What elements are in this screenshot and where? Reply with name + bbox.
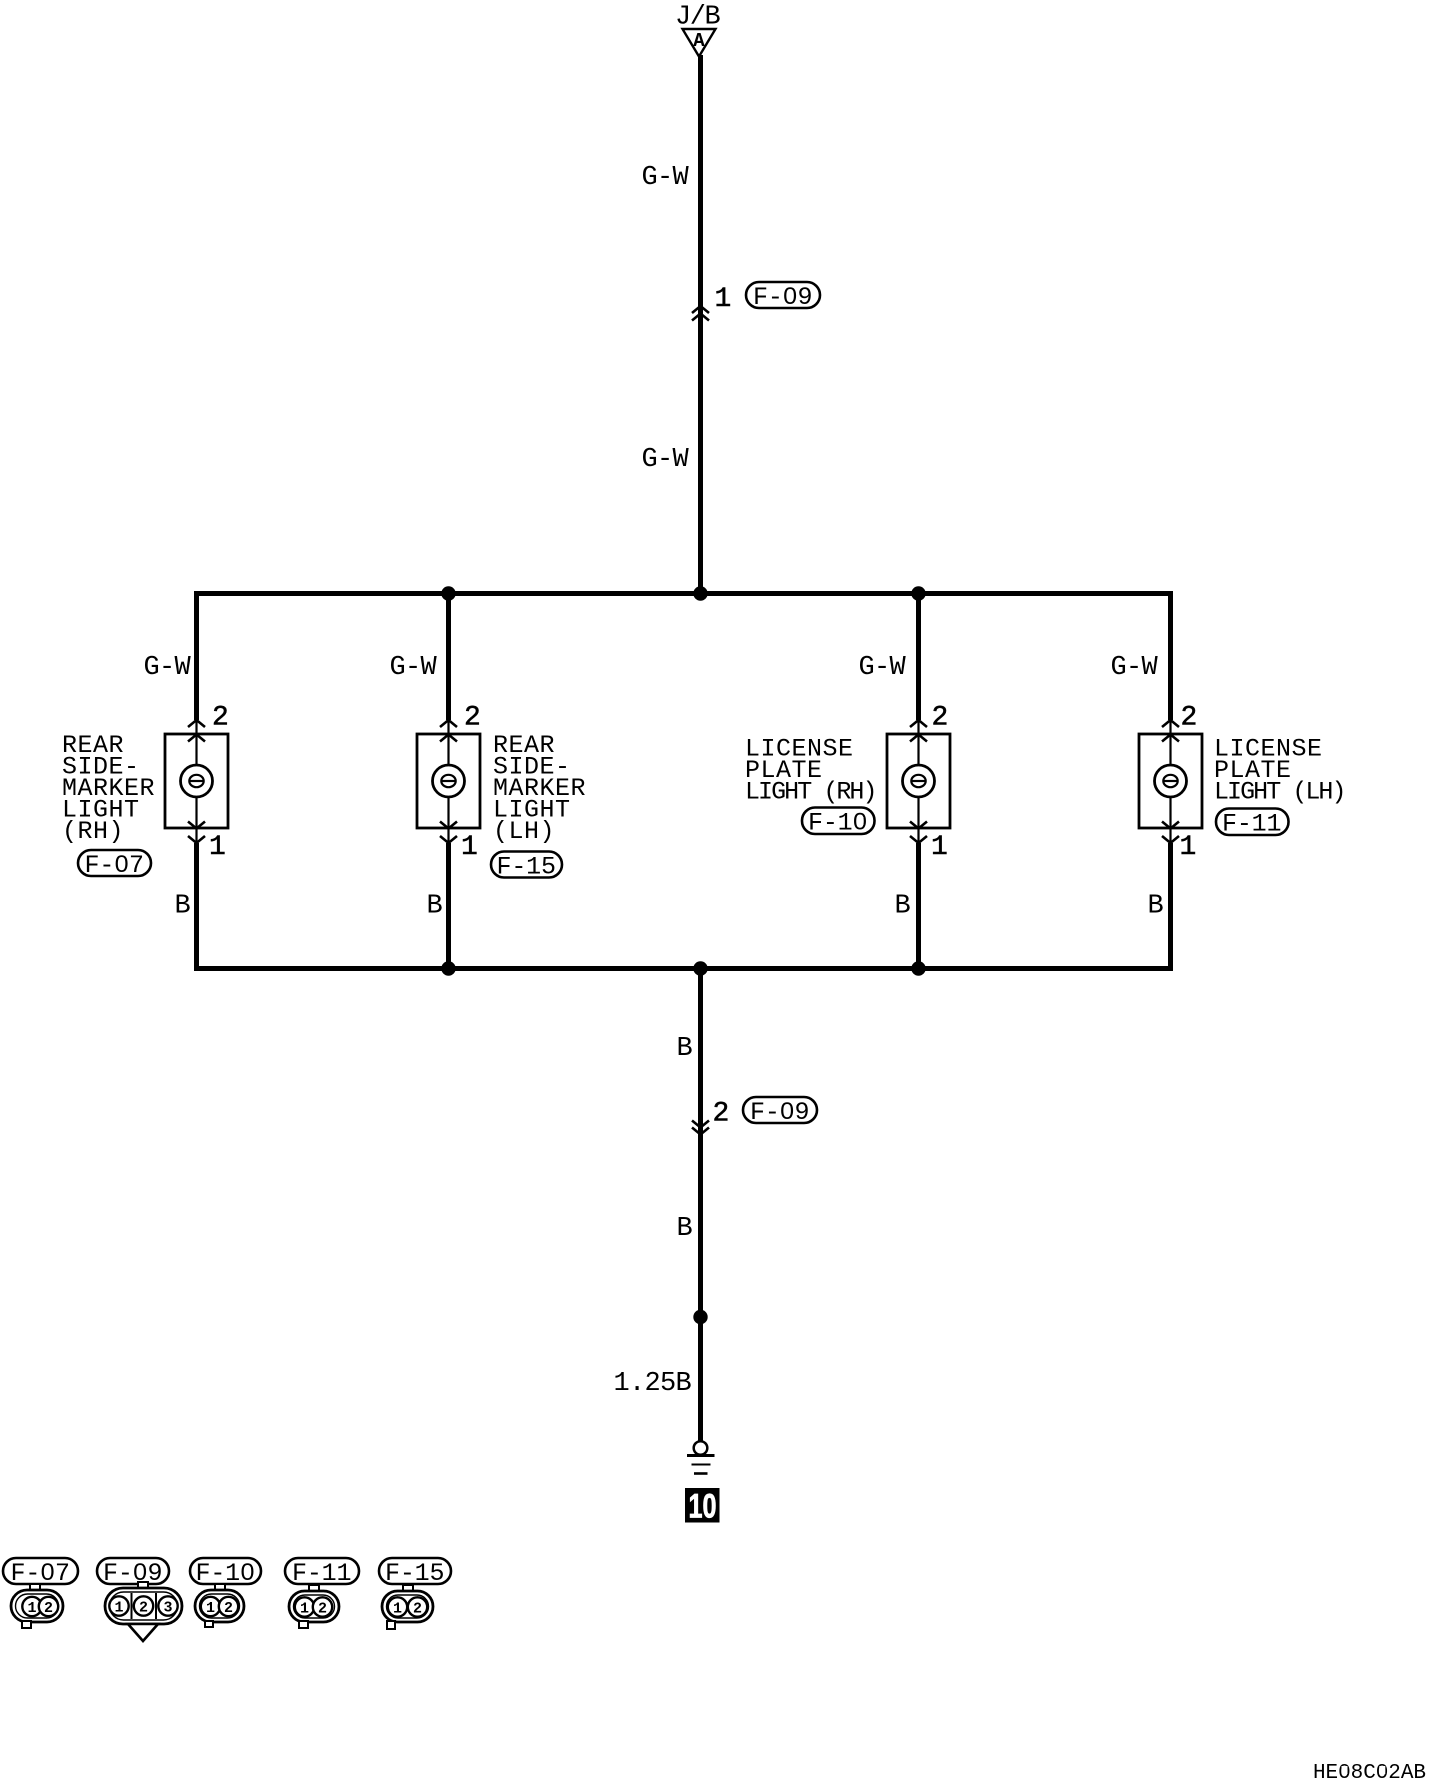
svg-text:(LH): (LH) bbox=[493, 817, 555, 846]
connector arrows at lamp top bbox=[440, 720, 457, 742]
svg-text:LIGHT (RH): LIGHT (RH) bbox=[745, 778, 878, 807]
svg-text:1: 1 bbox=[715, 284, 732, 315]
svg-text:2: 2 bbox=[44, 1600, 53, 1617]
connector label F-07 bbox=[3, 1558, 78, 1588]
svg-text:2: 2 bbox=[413, 1601, 422, 1618]
svg-text:2: 2 bbox=[212, 703, 229, 734]
component name REAR SIDE-MARKER LIGHT (LH) bbox=[493, 731, 586, 846]
svg-text:F-09: F-09 bbox=[750, 1098, 810, 1127]
svg-text:1.25B: 1.25B bbox=[613, 1369, 691, 1399]
wire branch4 upper (G-W) bbox=[1168, 593, 1173, 720]
svg-text:B: B bbox=[676, 1034, 692, 1064]
connector F-11 pin view bbox=[289, 1585, 339, 1628]
connector label F-10 bbox=[190, 1558, 261, 1588]
connector arrows at lamp top bbox=[910, 720, 927, 742]
F-10 pin 1 bbox=[201, 1597, 220, 1616]
wire branch1 upper (G-W) bbox=[194, 593, 199, 720]
wire bottom bus to ground (B) bbox=[698, 968, 703, 1441]
wire J/B to top bus (G-W vertical feed) bbox=[698, 55, 703, 592]
junction dot at branch 3 bbox=[911, 586, 925, 600]
wire bottom bus (B) bbox=[194, 966, 1173, 971]
svg-text:2: 2 bbox=[713, 1099, 730, 1130]
connector F-10 pin view bbox=[195, 1584, 244, 1627]
connector label F-15 bbox=[491, 852, 562, 882]
connector F-09 pin 2 mating arrows bbox=[692, 1121, 709, 1135]
connector F-09 pin view bbox=[105, 1582, 182, 1641]
svg-text:B: B bbox=[894, 892, 910, 922]
svg-text:1: 1 bbox=[209, 832, 226, 863]
svg-text:1: 1 bbox=[114, 1600, 123, 1617]
connector arrows at lamp top bbox=[1162, 720, 1179, 742]
component name LICENSE PLATE LIGHT (RH) bbox=[745, 735, 878, 807]
svg-text:G-W: G-W bbox=[1110, 653, 1158, 683]
wire branch2 lower (B) bbox=[446, 843, 451, 968]
svg-text:G-W: G-W bbox=[143, 653, 191, 683]
connector arrows at lamp bottom bbox=[188, 822, 205, 844]
svg-text:G-W: G-W bbox=[641, 445, 689, 475]
svg-text:F-09: F-09 bbox=[753, 283, 813, 312]
svg-text:1: 1 bbox=[300, 1601, 309, 1618]
svg-text:F-15: F-15 bbox=[497, 853, 557, 882]
connector arrows at lamp top bbox=[188, 720, 205, 742]
svg-text:G-W: G-W bbox=[858, 653, 906, 683]
F-09 pin 3 bbox=[158, 1596, 177, 1615]
junction block take-out triangle A bbox=[683, 29, 716, 57]
svg-text:2: 2 bbox=[464, 703, 481, 734]
svg-text:F-15: F-15 bbox=[385, 1559, 445, 1588]
svg-text:B: B bbox=[1147, 892, 1163, 922]
svg-text:1: 1 bbox=[461, 832, 478, 863]
svg-text:3: 3 bbox=[163, 1600, 172, 1617]
connector label F-11 bbox=[1216, 809, 1289, 839]
svg-text:B: B bbox=[174, 892, 190, 922]
svg-text:F-11: F-11 bbox=[1222, 810, 1282, 839]
F-15 pin 1 bbox=[388, 1597, 407, 1616]
svg-text:B: B bbox=[426, 892, 442, 922]
connector F-07 pin view bbox=[11, 1584, 63, 1628]
component name LICENSE PLATE LIGHT (LH) bbox=[1214, 735, 1347, 807]
svg-text:1: 1 bbox=[206, 1600, 215, 1617]
ground symbol bbox=[687, 1441, 715, 1473]
wire branch3 lower (B) bbox=[916, 843, 921, 968]
connector arrows at lamp bottom bbox=[1162, 822, 1179, 844]
svg-text:2: 2 bbox=[139, 1600, 148, 1617]
wire top bus (G-W) bbox=[194, 591, 1173, 596]
connector arrows at lamp bottom bbox=[440, 822, 457, 844]
rear side-marker light RH bulb box F-07 bbox=[165, 720, 228, 843]
F-09 harness side wedge bbox=[128, 1624, 158, 1641]
connector label F-15 bbox=[379, 1558, 451, 1588]
svg-text:HE08C02AB: HE08C02AB bbox=[1313, 1762, 1426, 1785]
junction dot at feed bbox=[693, 586, 707, 600]
svg-text:2: 2 bbox=[224, 1600, 233, 1617]
junction dot at ground feed bbox=[693, 961, 707, 975]
svg-text:(RH): (RH) bbox=[62, 817, 124, 846]
connector label F-09 bbox=[97, 1558, 169, 1588]
F-11 pin 1 bbox=[295, 1597, 314, 1616]
svg-text:2: 2 bbox=[932, 703, 949, 734]
svg-text:10: 10 bbox=[689, 1488, 717, 1526]
svg-text:1: 1 bbox=[931, 832, 948, 863]
F-07 pin 1 bbox=[22, 1597, 41, 1616]
svg-text:1: 1 bbox=[27, 1600, 36, 1617]
connector label F-10 bbox=[802, 808, 875, 838]
svg-text:2: 2 bbox=[318, 1601, 327, 1618]
junction dot at branch 3 bottom bbox=[911, 961, 925, 975]
ground reference number 10 bbox=[685, 1488, 720, 1526]
svg-text:F-07: F-07 bbox=[85, 851, 145, 880]
component name REAR SIDE-MARKER LIGHT (RH) bbox=[62, 731, 155, 846]
svg-text:G-W: G-W bbox=[389, 653, 437, 683]
connector label F-11 bbox=[285, 1558, 359, 1588]
license plate light RH bulb box F-10 bbox=[887, 720, 950, 843]
splice junction dot bbox=[693, 1310, 707, 1324]
wire branch2 upper (G-W) bbox=[446, 593, 451, 720]
svg-text:B: B bbox=[676, 1214, 692, 1244]
svg-text:LIGHT (LH): LIGHT (LH) bbox=[1214, 778, 1347, 807]
wire branch4 lower (B) bbox=[1168, 843, 1173, 968]
svg-text:1: 1 bbox=[393, 1601, 402, 1618]
F-07 pin 2 bbox=[39, 1597, 58, 1616]
wire branch1 lower (B) bbox=[194, 843, 199, 968]
connector F-09 pin 1 mating arrows bbox=[692, 306, 709, 321]
connector label F-09 bbox=[743, 1097, 817, 1127]
connector label F-09 bbox=[746, 282, 820, 312]
connector label F-07 bbox=[78, 850, 151, 880]
svg-text:G-W: G-W bbox=[641, 163, 689, 193]
F-09 pin 2 bbox=[134, 1596, 153, 1615]
connector arrows at lamp bottom bbox=[910, 822, 927, 844]
F-09 pin 1 bbox=[109, 1596, 128, 1615]
F-10 pin 2 bbox=[219, 1597, 238, 1616]
F-15 pin 2 bbox=[408, 1597, 427, 1616]
rear side-marker light LH bulb box F-15 bbox=[417, 720, 480, 843]
F-11 pin 2 bbox=[313, 1597, 332, 1616]
junction dot at branch 2 bbox=[441, 586, 455, 600]
svg-text:2: 2 bbox=[1181, 703, 1198, 734]
svg-text:F-09: F-09 bbox=[103, 1559, 163, 1588]
svg-text:1: 1 bbox=[1180, 832, 1197, 863]
svg-text:F-11: F-11 bbox=[292, 1559, 352, 1588]
license plate light LH bulb box F-11 bbox=[1139, 720, 1202, 843]
junction dot at branch 2 bottom bbox=[441, 961, 455, 975]
svg-text:A: A bbox=[693, 30, 705, 52]
connector F-15 pin view bbox=[382, 1585, 433, 1629]
wire branch3 upper (G-W) bbox=[916, 593, 921, 720]
